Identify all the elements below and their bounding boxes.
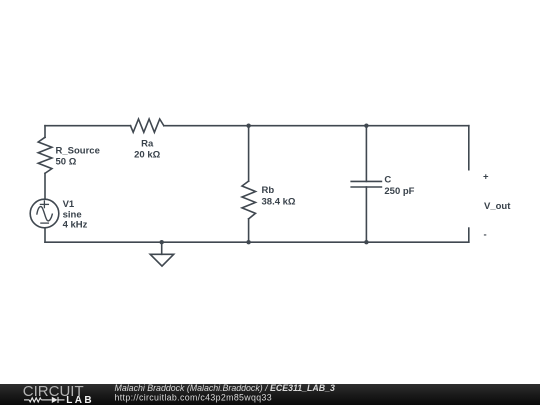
resistor R_Source [38,137,52,173]
wire Rb bottom [248,219,250,242]
svg-text:R_Source: R_Source [56,145,100,156]
node dot ground [160,240,164,244]
svg-text:4 kHz: 4 kHz [63,220,88,231]
svg-text:50 Ω: 50 Ω [56,156,77,167]
resistor Ra [131,119,164,132]
node dot C top [364,124,368,128]
resistor Rb [242,181,256,219]
wire top rail right segment [164,125,469,127]
wire C bottom [365,187,367,242]
wire ground stub [161,242,163,254]
svg-text:http://circuitlab.com/c43p2m85: http://circuitlab.com/c43p2m85wqq33 [115,393,272,403]
wire left vertical upper [44,126,46,138]
logo wire with resistor and diode [24,397,65,403]
wire R_Source to V1 [44,173,46,199]
svg-text:-: - [484,230,487,241]
svg-text:LAB: LAB [66,395,94,405]
source V1 plus sign [40,201,48,208]
source V1 circle [30,199,59,228]
source V1 sine wave [37,207,52,221]
svg-text:38.4 kΩ: 38.4 kΩ [262,196,296,207]
wire C top [365,126,367,182]
wire bottom rail [45,241,469,243]
wire Rb top [248,126,250,181]
footer bar background [0,384,540,405]
svg-text:Rb: Rb [262,185,275,196]
wire top rail left segment [45,125,131,127]
node dot Rb top [246,124,250,128]
source V1 minus sign [41,222,49,224]
capacitor C top plate [351,180,381,182]
svg-text:+: + [483,171,489,182]
ground symbol [150,254,174,266]
svg-text:Malachi Braddock (Malachi.Brad: Malachi Braddock (Malachi.Braddock) / EC… [115,383,335,393]
wire V1 to bottom rail [44,228,46,242]
svg-text:V_out: V_out [484,201,511,212]
svg-text:250 pF: 250 pF [384,186,414,197]
svg-text:20 kΩ: 20 kΩ [134,149,160,160]
logo diode triangle [52,397,58,403]
wire right vertical upper terminal [468,126,470,170]
wire right vertical lower terminal [468,228,470,242]
node dot C bottom [364,240,368,244]
svg-text:Ra: Ra [141,138,154,149]
svg-text:C: C [384,174,391,185]
capacitor C bottom plate [351,186,381,188]
node dot Rb bottom [246,240,250,244]
